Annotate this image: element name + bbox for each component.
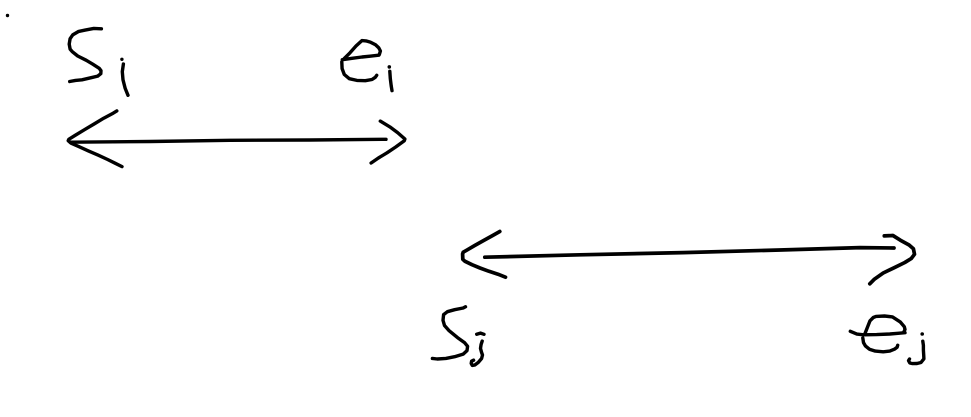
arrow i main line xyxy=(70,139,386,142)
double arrow interval j xyxy=(463,232,915,284)
arrow j left head xyxy=(463,232,506,278)
label S_i xyxy=(69,28,128,95)
label S_j xyxy=(432,307,484,366)
arrow j right head xyxy=(870,236,915,284)
label e_j xyxy=(850,316,924,364)
stray dot xyxy=(6,14,9,17)
double arrow interval i xyxy=(68,111,405,167)
arrow i left head xyxy=(68,111,122,167)
arrow i right head xyxy=(371,121,405,163)
arrow j main line xyxy=(485,248,894,258)
label e_i xyxy=(342,41,392,91)
